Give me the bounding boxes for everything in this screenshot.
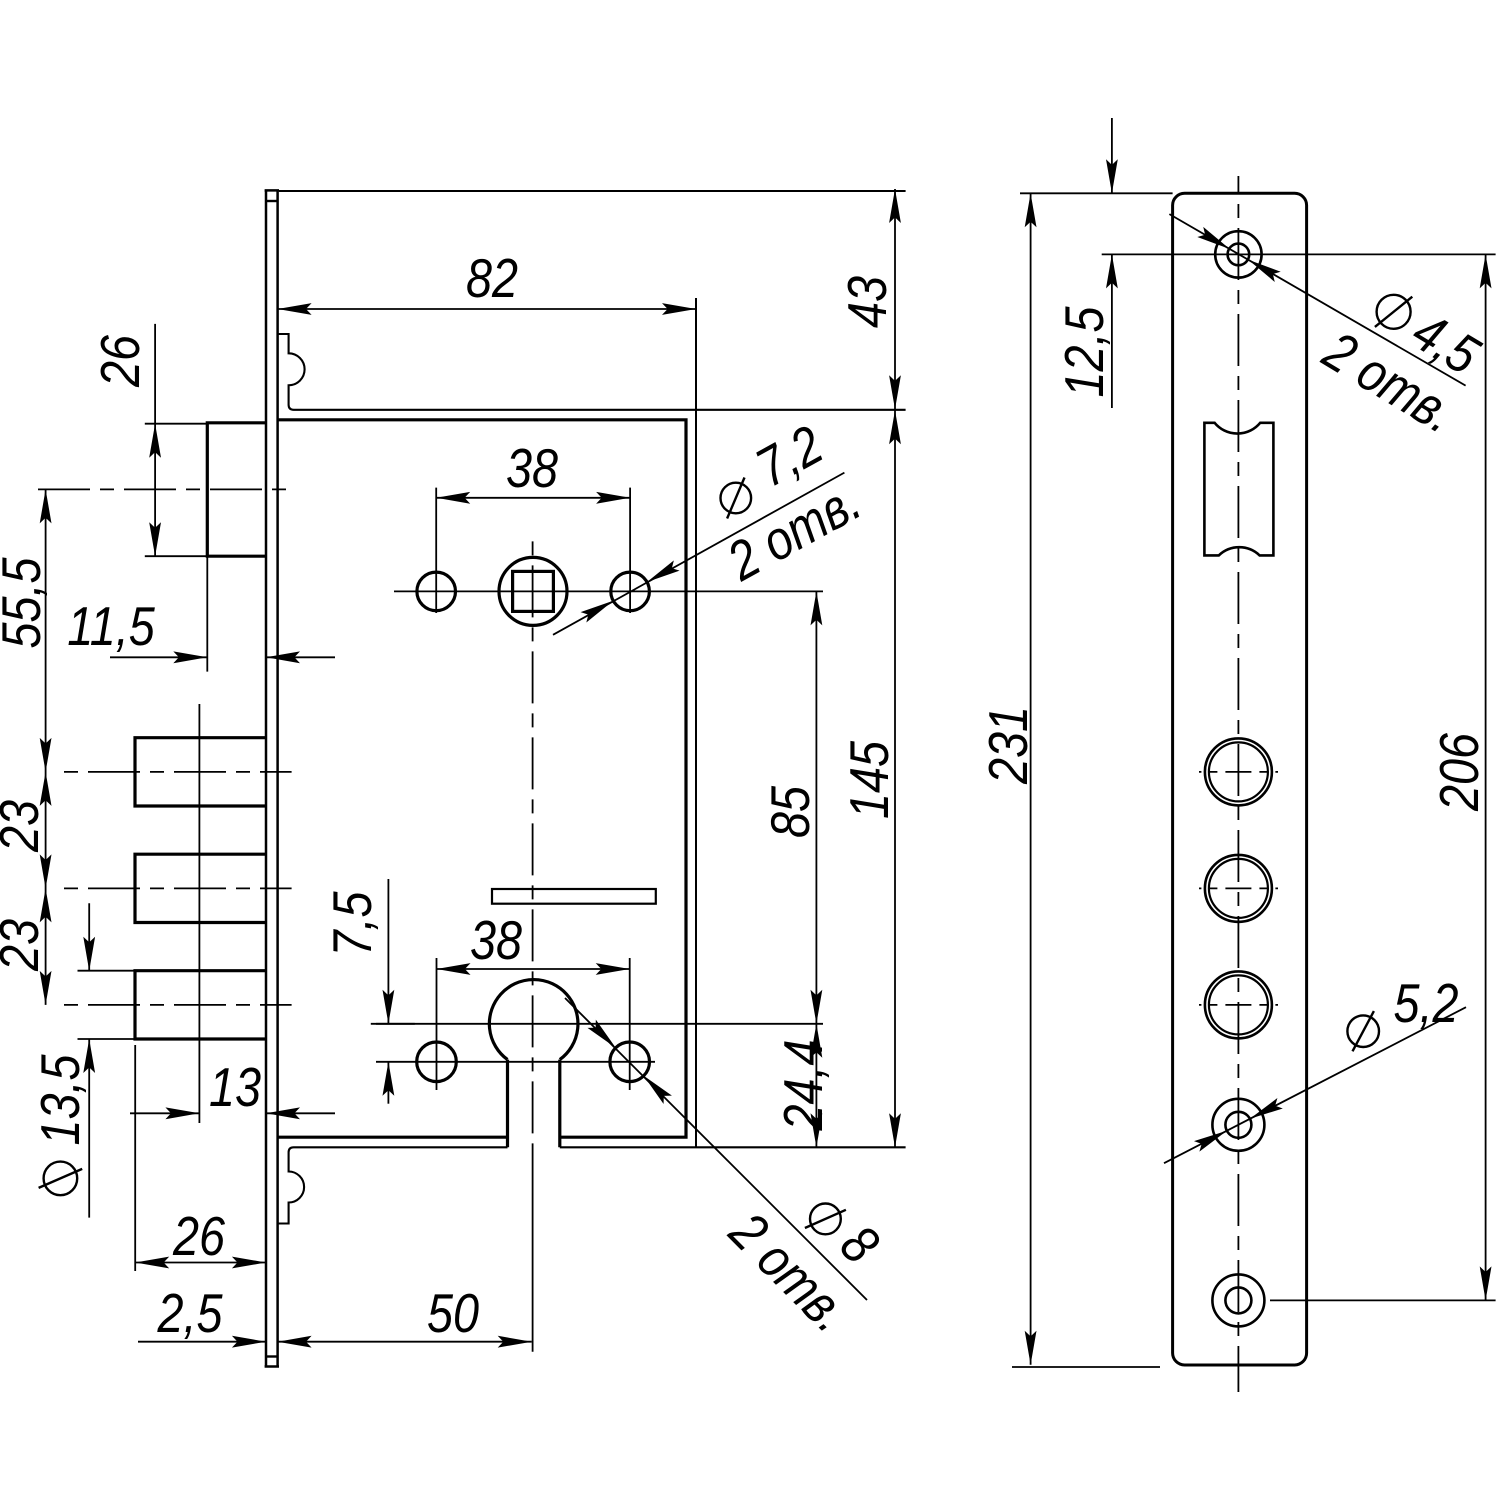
svg-text:12,5: 12,5: [1053, 306, 1114, 398]
top screw hole Ø4,5: [1215, 231, 1261, 277]
dimension 82: [278, 308, 696, 310]
dimension 145 arrows: [889, 410, 901, 444]
extension left: [436, 958, 438, 1090]
keyhole slot left edge: [506, 1060, 509, 1148]
dimension 43 and 145 shared line: [894, 189, 896, 1147]
extension bottom: [78, 1038, 136, 1040]
cover plate right edge / extension line: [695, 298, 697, 1147]
latch window with concave edges: [1204, 423, 1273, 556]
svg-text:38: 38: [470, 909, 523, 970]
svg-text:50: 50: [427, 1282, 479, 1343]
extension right: [629, 958, 631, 1090]
cover plate top contour with upper rivet tab: [278, 334, 906, 410]
dimension 206: [1485, 254, 1487, 1300]
faceplate top end cap: [265, 189, 279, 192]
dimension 24,4 arrows: [811, 1024, 823, 1058]
svg-text:206: 206: [1428, 732, 1489, 811]
extension line right: [629, 488, 631, 613]
dimension 55,5: [45, 489, 47, 1005]
svg-text:23: 23: [0, 800, 50, 853]
spindle square hole: [513, 571, 554, 611]
svg-text:145: 145: [838, 740, 899, 819]
svg-text:13,5: 13,5: [29, 1054, 90, 1146]
dimension Ø13,5 deadbolt diameter: [88, 903, 90, 970]
case top edge line, extended right as extension line: [279, 190, 906, 192]
leader and label Ø8 2 holes: [565, 998, 867, 1300]
centerline extension below lock: [532, 1147, 534, 1352]
handle screw hole right Ø7.2: [611, 572, 650, 611]
svg-text:23: 23: [0, 919, 50, 972]
dimension 11,5: [110, 656, 207, 658]
faceplate back edge (right line): [276, 190, 279, 1366]
faceplate plate outline: [1173, 193, 1307, 1365]
extension keyhole center short: [371, 1023, 415, 1025]
horizontal centerline Ø8 holes: [376, 1061, 655, 1063]
svg-text:26: 26: [172, 1205, 225, 1266]
fixing hole left Ø8: [417, 1042, 457, 1082]
lock case box outline (thick): [278, 420, 686, 1137]
extension top (shared with 12,5): [1020, 192, 1173, 194]
deadbolt 3: [135, 971, 266, 1039]
cover plate bottom contour with lower rivet tab: [278, 1147, 906, 1223]
spindle follower circle: [499, 557, 567, 625]
svg-text:55,5: 55,5: [0, 557, 52, 649]
deadbolt 2 centerline: [55, 887, 292, 889]
main vertical centerline: [532, 533, 534, 1147]
dimension 23 upper: [40, 772, 52, 806]
dimension 26 latch height: [154, 324, 156, 556]
bolt hole 1 centerline: [1199, 771, 1278, 773]
bolt hole 2: [1205, 855, 1272, 922]
horizontal centerline spindle row / 85 extension: [394, 590, 823, 592]
leader and label Ø4,5 2 holes: [1169, 214, 1465, 386]
deadbolt 1: [135, 738, 266, 806]
handle screw hole left Ø7.2: [417, 572, 456, 611]
extension top: [145, 423, 208, 425]
svg-text:5,2: 5,2: [1394, 972, 1459, 1033]
dimension 26 bottom: [135, 1262, 266, 1264]
deadbolt 3 centerline: [55, 1004, 292, 1006]
svg-text:231: 231: [977, 706, 1038, 785]
keyhole circle: [489, 980, 578, 1060]
dimension 38 upper: [436, 497, 630, 499]
extension top: [78, 970, 136, 972]
middle screw hole Ø5,2: [1212, 1099, 1264, 1151]
horizontal centerline keyhole / 85-24,4 extension: [376, 1023, 823, 1025]
svg-text:11,5: 11,5: [67, 595, 155, 656]
svg-text:85: 85: [759, 785, 820, 838]
dimension 7,5: [387, 879, 389, 1024]
dimension 85 and 24,4 shared line: [815, 591, 817, 1147]
bolt hole 3 centerline: [1199, 1004, 1278, 1006]
dimension 38 lower: [437, 968, 630, 970]
faceplate bottom end cap: [265, 1365, 279, 1368]
deadbolt 1 centerline: [55, 771, 292, 773]
leader and label Ø7,2 2 holes: [553, 473, 844, 635]
deadbolt 2: [135, 854, 266, 922]
svg-text:7,5: 7,5: [321, 891, 382, 957]
svg-text:38: 38: [506, 437, 559, 498]
extension bottom: [1012, 1366, 1160, 1368]
latch centerline: [36, 488, 291, 490]
cam slot bar: [492, 889, 656, 904]
svg-text:2,5: 2,5: [157, 1282, 223, 1343]
svg-text:24,4: 24,4: [772, 1040, 833, 1132]
extension: latch left edge: [206, 556, 208, 671]
leader and label Ø5,2: [1164, 1007, 1466, 1163]
plate vertical centerline: [1237, 176, 1239, 1392]
bolt hole 3: [1205, 971, 1272, 1038]
bolt hole 2 centerline: [1199, 887, 1278, 889]
bottom screw hole: [1212, 1274, 1264, 1326]
extension bottom hole center right: [1270, 1299, 1496, 1301]
extension: hole center across plate: [1102, 253, 1496, 255]
extension: deadbolt left edge: [134, 1045, 136, 1271]
latch bolt: [207, 423, 266, 556]
extension bottom: [145, 555, 208, 557]
svg-text:26: 26: [89, 334, 150, 387]
dimension 23 lower: [40, 888, 52, 922]
faceplate bottom inner line: [266, 1355, 278, 1357]
fixing hole right Ø8: [610, 1042, 650, 1082]
dimension 12,5: [1111, 118, 1113, 193]
svg-text:13: 13: [209, 1056, 261, 1117]
svg-text:82: 82: [466, 247, 518, 308]
extension line left: [435, 488, 437, 613]
dimension 231: [1030, 193, 1032, 1365]
keyhole slot right edge: [558, 1060, 561, 1148]
faceplate top inner line: [266, 200, 278, 202]
extension: deadbolt axis: [198, 704, 200, 1123]
dimensions 2,5 and 50: [138, 1341, 266, 1343]
bolt hole 1: [1205, 738, 1272, 805]
dimension 13: [130, 1112, 199, 1114]
faceplate front edge (left line): [265, 190, 268, 1366]
svg-text:43: 43: [836, 276, 897, 328]
